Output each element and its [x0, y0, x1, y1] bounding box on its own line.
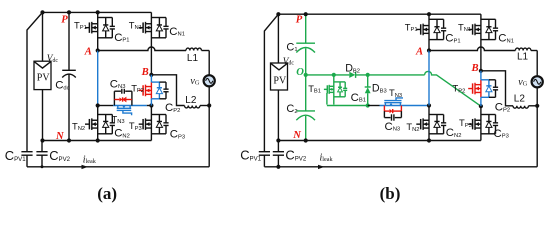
wire node A to L1 with hop (b): [429, 47, 515, 51]
transistor T_P3 with body diode and capacitor C_P3 (b): [468, 106, 498, 140]
svg-text:PV: PV: [273, 75, 287, 86]
svg-text:P: P: [61, 15, 68, 26]
capacitor C_PV2 (b): [273, 141, 284, 167]
node dot T_P1 drain (a): [96, 10, 100, 14]
label C_B1 (b): [351, 92, 366, 104]
wire node B to L2 (a): [151, 75, 184, 106]
wire left outer to C_PV1 (b): [264, 14, 278, 152]
node dot C_dc top (a): [67, 10, 71, 14]
node dot T_N2 source (a): [96, 138, 100, 142]
label V_dc (a): [47, 54, 59, 64]
label T_P3 (b): [459, 117, 472, 129]
node dot green T_B1 top (b): [332, 73, 336, 77]
label T_P2 (a): [131, 82, 144, 94]
label i_leak (b): [320, 152, 334, 163]
svg-text:PV: PV: [37, 72, 51, 83]
svg-text:L1: L1: [187, 53, 199, 64]
transistor T_N1 with body diode and capacitor C_N1 (a): [139, 12, 169, 74]
label C_PV2 (a): [49, 148, 70, 163]
label C_P1 (b): [445, 33, 460, 45]
label T_B1 (b): [308, 83, 321, 95]
label P (b): [296, 15, 303, 26]
arrow i_leak (b): [318, 165, 325, 169]
label C_N2 (a): [114, 128, 130, 140]
wire green hop and diagonal to T_P2 leg (b): [425, 71, 481, 106]
label C_N3 (b): [385, 121, 401, 133]
label P (a): [61, 15, 68, 26]
wire node A to L1 with hop over right leg (a): [98, 47, 186, 51]
capacitor C_N3 clamp loop with diode (b): [384, 106, 401, 121]
svg-text:A: A: [415, 47, 423, 58]
label N (b): [292, 130, 301, 141]
label v_G (b): [518, 77, 527, 88]
node B dot (a): [149, 73, 153, 77]
label C_N3 (a): [110, 78, 126, 90]
capacitor C_PV1 (b): [259, 152, 270, 167]
node A dot (b): [427, 48, 431, 52]
transistor T_N2 with body diode and capacitor C_N2 (a): [85, 106, 115, 141]
label C_N2 (b): [446, 127, 462, 139]
label L2 (a): [185, 95, 197, 106]
label T_N1 (b): [458, 21, 471, 33]
label v_G (a): [190, 76, 199, 87]
node dot L2-rail junction (b): [535, 104, 539, 108]
node dot C_PV2 bottom (b): [276, 165, 280, 169]
label T_N2 (a): [72, 120, 85, 132]
label C_N1 (b): [498, 33, 514, 45]
node dot PV- (b): [276, 138, 280, 142]
wire grid rail lower (a): [208, 87, 210, 167]
label PV (b): [273, 75, 287, 86]
label L1 (a): [187, 53, 199, 64]
transistor T_P1 with body diode and capacitor C_P1 (b): [416, 14, 446, 50]
node dot mid-right leg (b): [479, 104, 483, 108]
label C2 (b): [286, 103, 297, 115]
svg-text:O: O: [296, 67, 304, 78]
node B dot (b): [479, 69, 483, 73]
label B (a): [141, 67, 149, 78]
wire bottom rail (a): [27, 166, 209, 168]
label B (b): [471, 63, 479, 74]
label PV (a): [37, 72, 51, 83]
transistor T_P2 red with blue diode and capacitor C_P2 (a): [139, 75, 169, 106]
caption (b): [380, 184, 401, 203]
svg-text:(a): (a): [97, 184, 117, 203]
node dot T_P1 drain (b): [427, 12, 431, 16]
label A (a): [84, 47, 92, 58]
label C_PV2 (b): [285, 148, 306, 163]
ac source v_G (a): [204, 75, 215, 86]
wire bottom rail (b): [264, 166, 537, 168]
transistor T_B1 green with body diode and capacitor C_B1 (b): [324, 75, 347, 105]
label A (b): [415, 47, 423, 58]
node P dot (b): [276, 12, 280, 16]
node P dot (a): [40, 10, 44, 14]
arrow i_leak (a): [82, 165, 89, 169]
wire mid rail blue segment (a): [113, 105, 147, 107]
pv module PV (b): [271, 14, 288, 140]
wire grid rail lower (b): [536, 88, 538, 167]
node dot L2-rail junction (a): [207, 103, 211, 107]
label C_P3 (b): [494, 128, 509, 140]
label T_N3 (b): [389, 87, 402, 99]
capacitor C_dc (a): [62, 12, 76, 140]
transistor T_N3 blue (b): [384, 98, 403, 106]
node O dot green (b): [304, 73, 308, 77]
wire top rail P (a): [43, 11, 152, 13]
label T_N1 (a): [129, 19, 142, 31]
wire mid rail black left (a): [98, 105, 113, 107]
label T_P1 (a): [74, 19, 87, 31]
svg-text:(b): (b): [380, 184, 401, 203]
label C_PV1 (b): [240, 148, 261, 163]
wire mid blue (b): [380, 105, 430, 107]
label V_dc (b): [283, 57, 295, 67]
node dot mid-left (a): [96, 103, 100, 107]
inductor L1 (a): [186, 48, 209, 74]
label C_P2 (a): [165, 102, 180, 114]
label T_P3 (a): [129, 120, 142, 132]
svg-text:L1: L1: [517, 51, 529, 62]
label C_P2 (b): [495, 101, 510, 113]
capacitor C_PV2 (a): [36, 141, 47, 167]
label C1 (b): [286, 41, 297, 53]
wire mid green (b): [327, 105, 368, 107]
wire top rail P (b): [278, 13, 481, 15]
label i_leak (a): [83, 154, 97, 165]
node dot green D_B3 top (b): [366, 73, 370, 77]
node dot T_N2 source (b): [427, 138, 431, 142]
node A dot (a): [96, 48, 100, 52]
label C_dc (a): [55, 79, 69, 91]
label D_B2 (b): [345, 63, 360, 75]
wire node A blue leg (b): [428, 51, 430, 106]
capacitor C1 green (b): [296, 14, 315, 75]
capacitor C_PV1 (a): [21, 152, 32, 167]
svg-text:L2: L2: [185, 95, 197, 106]
label C_P3 (a): [170, 128, 185, 140]
node dot C2 bottom (b): [304, 138, 308, 142]
inductor L2 (b): [513, 106, 537, 108]
wire left outer to C_PV1 (a): [27, 12, 43, 151]
caption (a): [97, 184, 117, 203]
pv module PV (a): [34, 12, 51, 140]
label L1 (b): [517, 51, 529, 62]
node dot C_dc bottom (a): [67, 138, 71, 142]
label L2 (b): [514, 94, 526, 105]
transistor T_P3 with body diode and capacitor C_P3 (a): [139, 106, 169, 141]
wire N rail (b): [278, 140, 481, 142]
label T_P1 (b): [405, 21, 418, 33]
diode D_B3 green (b): [365, 75, 371, 106]
label O (b): [296, 67, 304, 78]
wire mid rail black right (a): [147, 105, 152, 107]
wire node A blue leg (a): [97, 51, 99, 106]
capacitor C_N3 clamp loop with diode (a): [114, 89, 131, 106]
wire mid black (b): [368, 105, 380, 107]
capacitor C2 green (b): [296, 75, 315, 141]
diode D_B2 green on O rail (b): [306, 72, 425, 78]
svg-text:P: P: [296, 15, 303, 26]
label D_B3 (b): [372, 83, 387, 95]
label N (a): [55, 131, 64, 142]
svg-text:A: A: [84, 47, 92, 58]
svg-text:B: B: [141, 67, 149, 78]
label C_PV1 (a): [5, 148, 26, 163]
label T_N2 (b): [406, 121, 419, 133]
node dot PV- (a): [40, 138, 44, 142]
svg-text:N: N: [292, 130, 301, 141]
transistor T_P2 red with blue diode and capacitor C_P2 (b): [468, 71, 498, 106]
label C_P1 (a): [114, 32, 129, 44]
node dot mid green (b): [366, 103, 370, 107]
node dot mid-right (a): [149, 103, 153, 107]
node dot mid-left leg (b): [427, 103, 431, 107]
transistor T_P1 with body diode and capacitor C_P1 (a): [85, 12, 115, 50]
node dot C_PV2 bottom (a): [41, 165, 44, 168]
wire N rail (a): [43, 140, 152, 142]
svg-text:L2: L2: [514, 94, 526, 105]
wire node B to L2 (b): [481, 71, 513, 106]
label T_N3 (a): [112, 113, 125, 125]
label C_N1 (a): [169, 26, 185, 38]
transistor T_N2 with body diode and capacitor C_N2 (b): [416, 106, 446, 141]
label T_P2 (b): [453, 82, 466, 94]
inductor L1 (b): [515, 48, 537, 75]
transistor T_N3 blue (a): [117, 106, 132, 116]
node dot C1 top (b): [304, 12, 308, 16]
transistor T_N1 with body diode and capacitor C_N1 (b): [468, 14, 498, 71]
inductor L2 (a): [185, 106, 210, 108]
svg-text:B: B: [471, 63, 479, 74]
ac source v_G (b): [532, 76, 543, 87]
